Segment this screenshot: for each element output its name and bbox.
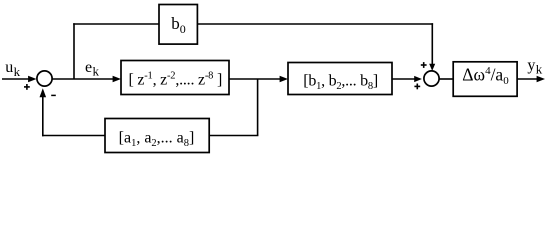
wire: b-block to right summer bbox=[392, 76, 422, 82]
block B0 (b0 gain) bbox=[159, 5, 197, 45]
plus sign above right summer bbox=[421, 62, 427, 68]
block A (feedback coefficients) bbox=[105, 119, 209, 153]
svg-text:uk: uk bbox=[5, 59, 20, 79]
wire: input u_k into left summer bbox=[2, 76, 37, 82]
svg-text:[ z-1, z-2,.... z-8 ]: [ z-1, z-2,.... z-8 ] bbox=[128, 70, 222, 88]
minus sign at left summer bbox=[51, 94, 56, 96]
wire: right summer to output block bbox=[439, 78, 453, 80]
wire: b0 output to right summer bbox=[197, 23, 433, 25]
wire: z-block to b-block bbox=[229, 76, 288, 82]
svg-text:[a1, a2,... a8]: [a1, a2,... a8] bbox=[119, 129, 195, 149]
block B (numerator coefficients) bbox=[288, 63, 392, 95]
wire: e_k from summer to z-block with branch bbox=[52, 76, 121, 82]
svg-text:[b1, b2,... b8]: [b1, b2,... b8] bbox=[303, 72, 378, 92]
block Z1 (delay line) bbox=[121, 61, 229, 95]
svg-text:yk: yk bbox=[527, 57, 542, 77]
summer S2 (right summing junction) bbox=[424, 71, 439, 86]
plus sign at left summer bbox=[24, 84, 30, 90]
summer S1 (left summing junction) bbox=[37, 71, 52, 86]
wire: output y_k bbox=[517, 76, 545, 82]
wire: feedback branch down from node between blocks bbox=[257, 79, 259, 136]
svg-text:b0: b0 bbox=[171, 14, 186, 36]
plus sign below-left of right summer bbox=[414, 84, 420, 90]
wire: a-block output to left summer (minus input) bbox=[42, 135, 105, 137]
wire: branch up to b0 bbox=[73, 23, 75, 79]
svg-text:ek: ek bbox=[85, 59, 100, 79]
svg-text:Δω4/a0: Δω4/a0 bbox=[462, 64, 509, 87]
block G (output gain dw^4/a0) bbox=[453, 62, 517, 97]
